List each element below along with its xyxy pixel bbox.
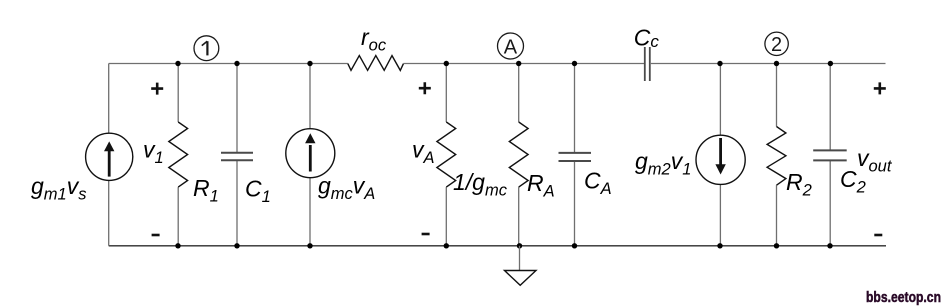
wire left branch vertical — [108, 64, 110, 246]
junction dot R2 top — [774, 61, 779, 66]
svg-text:A: A — [504, 36, 518, 58]
label minus right — [874, 234, 882, 237]
junction dot CA top — [572, 61, 577, 66]
node A — [498, 33, 524, 59]
ground — [505, 246, 537, 285]
junction dot gmc top — [307, 61, 312, 66]
current source U1 gm1vs — [86, 133, 133, 180]
label minus middle — [422, 233, 430, 236]
wire top rail left segment — [109, 63, 348, 65]
label plus right — [874, 82, 886, 94]
wire C2 branch — [829, 64, 831, 246]
junction dot CA bottom — [572, 243, 577, 248]
junction dot RA bottom — [517, 243, 522, 248]
junction dot gm2 top — [717, 61, 722, 66]
capacitor CA — [559, 153, 592, 161]
wire gm2 branch — [719, 64, 721, 246]
label plus middle — [419, 82, 431, 94]
wire C1 branch — [236, 64, 238, 246]
svg-text:bbs.eetop.cn: bbs.eetop.cn — [866, 290, 941, 306]
label plus left — [151, 83, 163, 95]
wire top rail right segment — [651, 63, 886, 65]
junction dot gm2 bottom — [717, 243, 722, 248]
label minus left — [152, 234, 160, 237]
wire bottom ground rail — [109, 245, 886, 247]
junction dot 1/gmc bottom — [444, 243, 449, 248]
svg-text:2: 2 — [771, 34, 782, 56]
wire CA branch — [574, 64, 576, 246]
junction dot C2 bottom — [827, 243, 832, 248]
junction dot gmc bottom — [307, 243, 312, 248]
wire R1 branch — [177, 64, 179, 246]
wire R2 branch — [776, 64, 778, 246]
resistor R1 — [169, 122, 188, 187]
resistor roc — [348, 55, 404, 70]
capacitor Cc — [645, 47, 650, 81]
wire gmc branch — [309, 64, 311, 246]
wire 1/gmc branch — [445, 64, 447, 246]
resistor R2 — [767, 127, 786, 186]
junction dot 1/gmc top — [444, 61, 449, 66]
capacitor C1 — [221, 153, 253, 161]
capacitor C2 — [813, 150, 847, 160]
wire top rail middle segment — [403, 63, 644, 65]
junction dot R2 bottom — [774, 243, 779, 248]
wire RA branch — [518, 64, 520, 246]
resistor RA — [509, 122, 528, 187]
resistor 1/gmc — [437, 122, 456, 187]
junction dot node1-R1 top — [175, 61, 180, 66]
junction dot C2 top — [828, 61, 833, 66]
node 2 — [765, 32, 788, 56]
node 1 — [194, 36, 219, 61]
junction dot C1 top — [234, 61, 239, 66]
current source U3 gm2v1 — [696, 135, 745, 184]
junction dot R1 bottom — [175, 243, 180, 248]
current source U2 gmcvA — [286, 129, 335, 178]
junction dot RA top — [516, 61, 521, 66]
junction dot C1 bottom — [234, 243, 239, 248]
